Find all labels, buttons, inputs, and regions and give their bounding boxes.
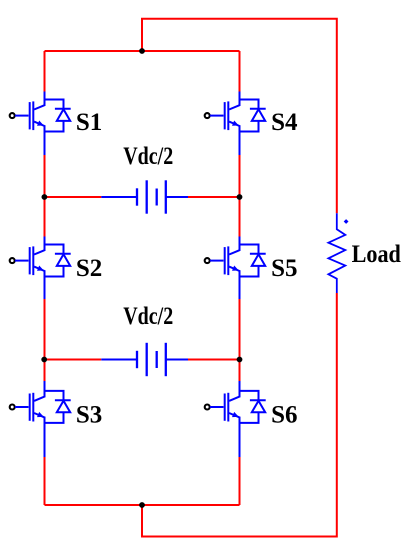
diode D-S1 (antiparallel with S1) bbox=[45, 100, 71, 132]
wire: right leg segment 1 bbox=[239, 51, 241, 92]
svg-text:Vdc/2: Vdc/2 bbox=[123, 303, 173, 330]
node: row1 left node bbox=[42, 194, 48, 200]
wire: row1 left red bbox=[45, 196, 102, 198]
wire: left leg segment 1 bbox=[44, 51, 46, 92]
wire: bottom bus between left and right legs bbox=[45, 504, 240, 506]
resistor Load bbox=[328, 213, 345, 293]
svg-text:S4: S4 bbox=[271, 109, 298, 136]
wire: row2 left red bbox=[45, 359, 102, 361]
wire: left leg segment 4 bbox=[44, 457, 46, 505]
node: row1 right node bbox=[237, 194, 243, 200]
svg-text:S1: S1 bbox=[76, 109, 102, 136]
node: row2 left node bbox=[41, 357, 47, 363]
polarity marker dot at load top bbox=[344, 219, 349, 224]
transistor S6 (IGBT) bbox=[205, 381, 240, 457]
transistor S4 (IGBT) bbox=[205, 92, 240, 156]
node: row2 right node bbox=[237, 357, 243, 363]
battery V2 (Vdc/2) bbox=[101, 343, 188, 376]
node: bottom bus midpoint node bbox=[139, 502, 145, 508]
wire: outer bottom link from midpoint node down and right to load bbox=[142, 293, 337, 537]
diode D-S6 (antiparallel with S6) bbox=[240, 391, 266, 423]
transistor S3 (IGBT) bbox=[10, 381, 45, 457]
wire: row1 right red bbox=[188, 196, 240, 198]
diode D-S5 (antiparallel with S5) bbox=[240, 245, 266, 277]
battery V1 (Vdc/2) bbox=[101, 180, 188, 213]
wire: outer top link from midpoint node up and right to load bbox=[142, 19, 337, 214]
transistor S2 (IGBT) bbox=[10, 237, 45, 300]
svg-text:Load: Load bbox=[352, 241, 401, 268]
wire: left leg segment 2 bbox=[44, 155, 46, 237]
diode D-S4 (antiparallel with S4) bbox=[240, 100, 266, 132]
wire: left leg segment 3 bbox=[44, 299, 46, 381]
transistor S1 (IGBT) bbox=[10, 92, 45, 156]
wire: row2 right red bbox=[188, 359, 240, 361]
diode D-S3 (antiparallel with S3) bbox=[45, 391, 71, 423]
transistor S5 (IGBT) bbox=[205, 237, 240, 300]
node: top bus midpoint node bbox=[139, 48, 145, 54]
svg-text:S5: S5 bbox=[271, 255, 297, 282]
svg-text:S3: S3 bbox=[76, 402, 102, 429]
svg-text:S6: S6 bbox=[271, 402, 297, 429]
diode D-S2 (antiparallel with S2) bbox=[45, 245, 71, 277]
wire: right leg segment 2 bbox=[239, 155, 241, 237]
svg-text:S2: S2 bbox=[76, 255, 102, 282]
wire: right leg segment 3 bbox=[239, 299, 241, 381]
wire: top bus between left and right legs bbox=[45, 50, 240, 52]
svg-text:Vdc/2: Vdc/2 bbox=[123, 143, 173, 170]
wire: right leg segment 4 bbox=[239, 457, 241, 505]
